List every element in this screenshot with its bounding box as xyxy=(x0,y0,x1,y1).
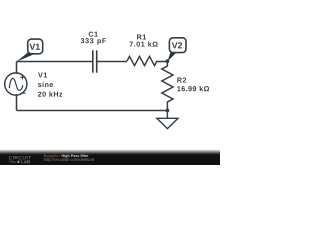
value 20 kHz xyxy=(38,91,62,96)
wire: V1 source bottom lead xyxy=(16,94,18,110)
watermark title xyxy=(44,154,58,157)
wire: C1 to R1 xyxy=(97,61,127,63)
resistor R1 xyxy=(127,56,157,65)
node junction at ground xyxy=(166,109,170,113)
label R2 xyxy=(177,77,186,82)
wire: top rail from source to C1 xyxy=(17,61,93,63)
wire: R1 to node V2 junction xyxy=(157,61,167,63)
label C1 xyxy=(89,32,98,37)
value sine xyxy=(38,82,53,87)
circuitlab logo xyxy=(9,156,31,163)
capacitor C1 xyxy=(93,50,97,72)
sine symbol xyxy=(9,78,23,90)
label V1 source xyxy=(38,73,47,78)
ground xyxy=(157,111,178,129)
label R1 xyxy=(137,35,146,40)
plus mark xyxy=(20,75,24,79)
watermark bar xyxy=(0,154,220,165)
watermark url xyxy=(44,158,94,162)
value 16.99 kOhm xyxy=(177,86,209,91)
value 7.01 kOhm xyxy=(130,41,158,46)
wire: V1 source top lead xyxy=(16,62,18,74)
node probe V1 xyxy=(17,39,43,62)
logo spark xyxy=(18,161,20,163)
voltage source V1 xyxy=(5,73,27,95)
resistor R2 xyxy=(162,61,173,111)
minus mark xyxy=(20,92,25,94)
node junction at V2 xyxy=(166,59,170,63)
node probe V2 xyxy=(168,38,186,61)
wire: bottom return rail xyxy=(17,110,168,112)
watermark gradient xyxy=(0,149,220,154)
value 333 pF xyxy=(81,38,106,45)
